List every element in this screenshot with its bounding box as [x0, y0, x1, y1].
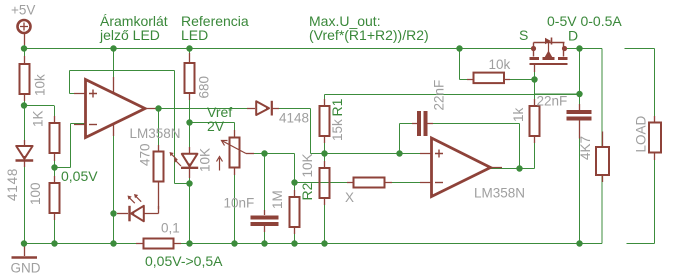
svg-text:0,1: 0,1 [161, 221, 180, 236]
node opamp2 output [516, 165, 522, 171]
resistor 10k (gate pull-up, horizontal) [467, 73, 510, 84]
svg-text:2V: 2V [207, 118, 225, 134]
resistor LOAD [649, 116, 661, 160]
node 680/LED/Vref [186, 119, 192, 125]
node opamp1 output [155, 105, 161, 111]
svg-text:D: D [568, 28, 578, 44]
svg-text:LM358N: LM358N [130, 126, 181, 141]
node gate pullup rail tap [456, 45, 462, 51]
resistor 1k (gate series) [530, 99, 540, 143]
resistor 1K [50, 116, 60, 161]
wire 22nF gate cap branch [535, 94, 580, 243]
wire 22nF feedback cap right plate to output [427, 124, 520, 169]
wire left +5V vertical and divider column [24, 33, 26, 243]
node gate [531, 76, 537, 82]
resistor 0,1 current sense (horizontal) [136, 239, 181, 249]
node sense rail 3 [261, 240, 267, 246]
svg-text:1k: 1k [511, 107, 526, 122]
ground symbol GND [12, 244, 38, 258]
node sense rail 6 [576, 240, 582, 246]
wire load stubs [625, 49, 655, 244]
svg-text:4148: 4148 [5, 168, 20, 201]
svg-text:(Vref*(R1+R2))/R2): (Vref*(R1+R2))/R2) [309, 27, 429, 43]
svg-text:0-5V 0-0.5A: 0-5V 0-0.5A [547, 13, 622, 29]
svg-text:R2: R2 [299, 182, 315, 200]
wire +5V top rail [24, 48, 602, 50]
wire opamp1 output to diode and down to R divider [145, 109, 324, 154]
wire opamp2 output to 1k gate resistor [490, 138, 535, 169]
capacitor 10nF [251, 210, 279, 232]
node 1K/100 junction [51, 164, 57, 170]
resistor 680 [185, 53, 195, 100]
resistor 470 [154, 145, 164, 209]
LED D2 referencia (pointing down) [170, 147, 199, 178]
resistor R1 15k [320, 99, 330, 143]
wire R1 R2 junction to opamp2 non-inverting input [325, 139, 432, 243]
diode 4148 series (horizontal) [247, 101, 279, 116]
resistor 1M [290, 190, 300, 234]
op-amp U1 LM358N [74, 77, 156, 138]
wire node divider tap to 1K [24, 106, 55, 244]
node sense rail 1 [186, 240, 192, 246]
svg-text:15k: 15k [330, 119, 345, 141]
svg-text:470: 470 [138, 143, 153, 166]
svg-text:100: 100 [28, 182, 43, 205]
svg-text:LED: LED [181, 27, 208, 43]
svg-text:0,05V: 0,05V [61, 168, 98, 184]
node 1M top [291, 179, 297, 185]
svg-text:22nF: 22nF [537, 94, 568, 109]
svg-text:22nF: 22nF [432, 80, 447, 111]
wire gate node [460, 49, 535, 107]
resistor 100 [50, 176, 60, 220]
wire pot wiper to 10nF and 1M [246, 154, 295, 244]
svg-text:4148: 4148 [279, 111, 309, 126]
node sense rail 4 [291, 240, 297, 246]
svg-text:0,05V->0,5A: 0,05V->0,5A [145, 253, 223, 269]
node LED2 cathode sense [186, 180, 192, 186]
svg-text:+5V: +5V [11, 3, 35, 18]
wire pot bottom to ground rail [234, 169, 236, 244]
wire ground bottom rail [24, 243, 602, 245]
svg-text:jelző LED: jelző LED [99, 27, 160, 43]
svg-text:R1: R1 [329, 98, 345, 116]
capacitor 22nF (gate, vertical) [567, 104, 592, 139]
node divider tap [21, 102, 27, 108]
node pot wiper [261, 150, 267, 156]
svg-text:1M: 1M [270, 190, 285, 209]
resistor 4k7 [596, 132, 609, 183]
wire opamp1 non-inverting feedback loop [70, 71, 190, 184]
wire drain to 4k7 [601, 49, 603, 244]
svg-text:LOAD: LOAD [634, 115, 649, 152]
node gate cap tap [576, 91, 582, 97]
node opamp1 V+ rail tap [110, 45, 116, 51]
wire 1M top node to X resistor to opamp2 inverting input [295, 182, 432, 243]
diode 4148 left clamp [16, 140, 34, 167]
wire opamp1 V+ pin to rail [113, 49, 115, 81]
svg-text:10K: 10K [198, 148, 213, 172]
node sense rail 2 [231, 240, 237, 246]
wire output junction down to 470 [158, 109, 160, 152]
transistor Q1 P-MOSFET [530, 38, 568, 73]
node gnd rail 3 [110, 240, 116, 246]
svg-text:4K7: 4K7 [578, 136, 593, 160]
potentiometer 10K [217, 130, 255, 175]
node gnd rail 1 [21, 240, 27, 246]
wire 680 top pin [189, 49, 191, 64]
node sense rail 5 [321, 240, 327, 246]
wire R1 top feedback line from drain node [325, 49, 580, 107]
wire 680 bottom to LED and Vref branch [190, 93, 235, 243]
node opamp2 + input [396, 150, 402, 156]
svg-text:S: S [519, 27, 528, 43]
svg-text:10K: 10K [300, 153, 315, 177]
resistor R 10k (top left divider) [20, 56, 30, 101]
svg-text:X: X [345, 190, 354, 205]
node +5V/10k [21, 45, 27, 51]
resistor R2 10k [320, 161, 330, 205]
supply +5V symbol [18, 20, 31, 45]
node 680 rail tap [186, 45, 192, 51]
node drain rail tap [576, 45, 582, 51]
wire opamp1 inverting input from 1K/100 junction [54, 124, 85, 168]
op-amp U2 LM358N [420, 138, 502, 197]
node R1/R2 junction [321, 150, 327, 156]
svg-text:GND: GND [11, 261, 41, 276]
wire opamp1 V- pin to ground rail [113, 130, 115, 243]
LED D1 aramkorlat jelzo (pointing left) [117, 194, 159, 221]
wire opamp2 + input filter cap branch [400, 124, 418, 154]
svg-text:680: 680 [197, 76, 212, 99]
svg-text:LM358N: LM358N [474, 186, 525, 201]
svg-text:1K: 1K [31, 110, 46, 127]
node gnd rail 2 [51, 240, 57, 246]
svg-text:10k: 10k [489, 57, 511, 72]
capacitor 22nF (feedback, horizontal) [412, 111, 433, 136]
svg-text:10nF: 10nF [224, 196, 255, 211]
svg-text:10k: 10k [33, 74, 48, 96]
node LED1 cathode [110, 210, 116, 216]
resistor X (horizontal) [347, 178, 392, 188]
